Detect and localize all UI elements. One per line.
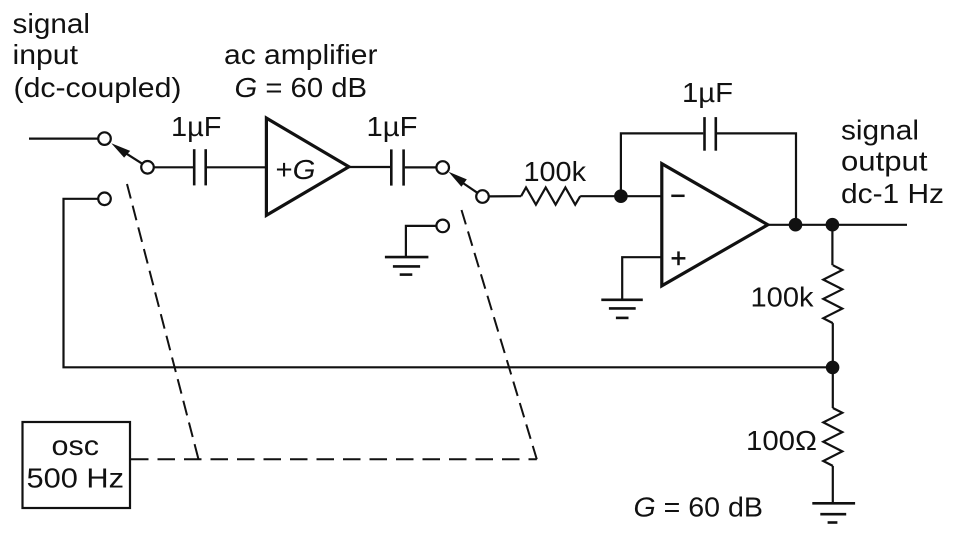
wire: S2 lower contact to ground — [406, 226, 437, 256]
switch S1 upper contact — [98, 132, 111, 145]
capacitor C2 1uF — [391, 149, 403, 185]
dashed link: oscillator horizontal run — [131, 458, 537, 460]
wire: feedback loop up and across — [621, 133, 703, 196]
svg-text:1µF: 1µF — [682, 77, 733, 108]
wire: R1 to summing node — [580, 195, 621, 197]
wire: output down to R2 — [831, 225, 833, 266]
svg-text:signal: signal — [13, 8, 91, 39]
wire: amplifier output to C2 — [349, 166, 390, 168]
switch S2 lower contact — [436, 220, 449, 233]
wire: summing node to op-amp inverting input — [621, 195, 662, 197]
node: inverting input junction — [614, 189, 628, 203]
svg-text:signal: signal — [841, 115, 919, 146]
switch S1 arm with arrowhead — [111, 143, 142, 163]
switch S2 upper contact — [436, 161, 449, 174]
label: minus sign at inverting input — [671, 195, 684, 198]
label: ac amplifier G = 60 dB — [224, 39, 378, 103]
capacitor C1 1uF — [194, 149, 206, 185]
svg-text:100k: 100k — [524, 156, 588, 187]
svg-text:output: output — [841, 146, 928, 177]
label: signal input (dc-coupled) — [13, 8, 182, 103]
svg-text:500 Hz: 500 Hz — [27, 463, 125, 494]
resistor R2 100k vertical — [823, 265, 842, 323]
wire: divider node down to R3 — [832, 367, 834, 408]
wire: S2 pole to R1 — [489, 195, 521, 197]
resistor R3 100 ohm vertical — [823, 408, 842, 466]
wire: non-inverting input to ground — [622, 257, 662, 299]
dashed link: oscillator to S1 — [127, 184, 199, 459]
wire: C2 to S2 upper contact — [405, 166, 437, 168]
wire: op-amp output line — [768, 224, 907, 226]
switch S1 lower contact — [98, 193, 111, 206]
wire: C1 to ac amplifier input — [207, 166, 266, 168]
ground symbol below op-amp — [601, 300, 643, 318]
svg-text:1µF: 1µF — [171, 111, 222, 142]
wire: long feedback return from S1 lower contact — [64, 199, 833, 367]
label: plus sign at non-inverting input — [672, 251, 686, 265]
node: feedback junction on output — [789, 218, 803, 232]
ground symbol bottom right — [812, 503, 855, 522]
dashed link: oscillator to S2 — [462, 210, 537, 459]
svg-text:G = 60 dB: G = 60 dB — [235, 72, 368, 103]
label: signal output dc-1 Hz — [841, 115, 944, 210]
svg-text:dc-1 Hz: dc-1 Hz — [841, 178, 944, 209]
svg-text:1µF: 1µF — [367, 111, 418, 142]
op-amp U2 triangle — [662, 164, 768, 286]
node: divider tap junction on output — [826, 218, 840, 232]
svg-text:100k: 100k — [751, 282, 815, 313]
svg-text:osc: osc — [52, 430, 100, 461]
switch S1 pole — [141, 161, 154, 174]
switch S2 arm with arrowhead — [449, 172, 478, 193]
wire: signal input lead — [29, 138, 98, 140]
svg-text:input: input — [13, 39, 79, 70]
wire: R3 to ground — [832, 466, 834, 502]
svg-text:(dc-coupled): (dc-coupled) — [14, 72, 182, 103]
wire: feedback right leg down to output — [717, 133, 796, 224]
capacitor C3 1uF feedback — [705, 117, 716, 151]
svg-text:ac amplifier: ac amplifier — [224, 39, 378, 70]
node: divider junction — [826, 361, 840, 375]
op-amp U1 ac amplifier triangle — [266, 118, 349, 215]
switch S2 pole — [476, 190, 489, 203]
svg-text:G = 60 dB: G = 60 dB — [634, 492, 764, 523]
oscillator box osc 500 Hz — [23, 422, 131, 508]
svg-text:100Ω: 100Ω — [746, 425, 817, 456]
resistor R1 100k horizontal — [521, 188, 580, 205]
svg-text:+G: +G — [276, 154, 316, 185]
ground symbol below S2 — [385, 257, 429, 275]
wire: R2 to divider node — [832, 323, 834, 367]
wire: S1 pole to C1 — [154, 166, 193, 168]
